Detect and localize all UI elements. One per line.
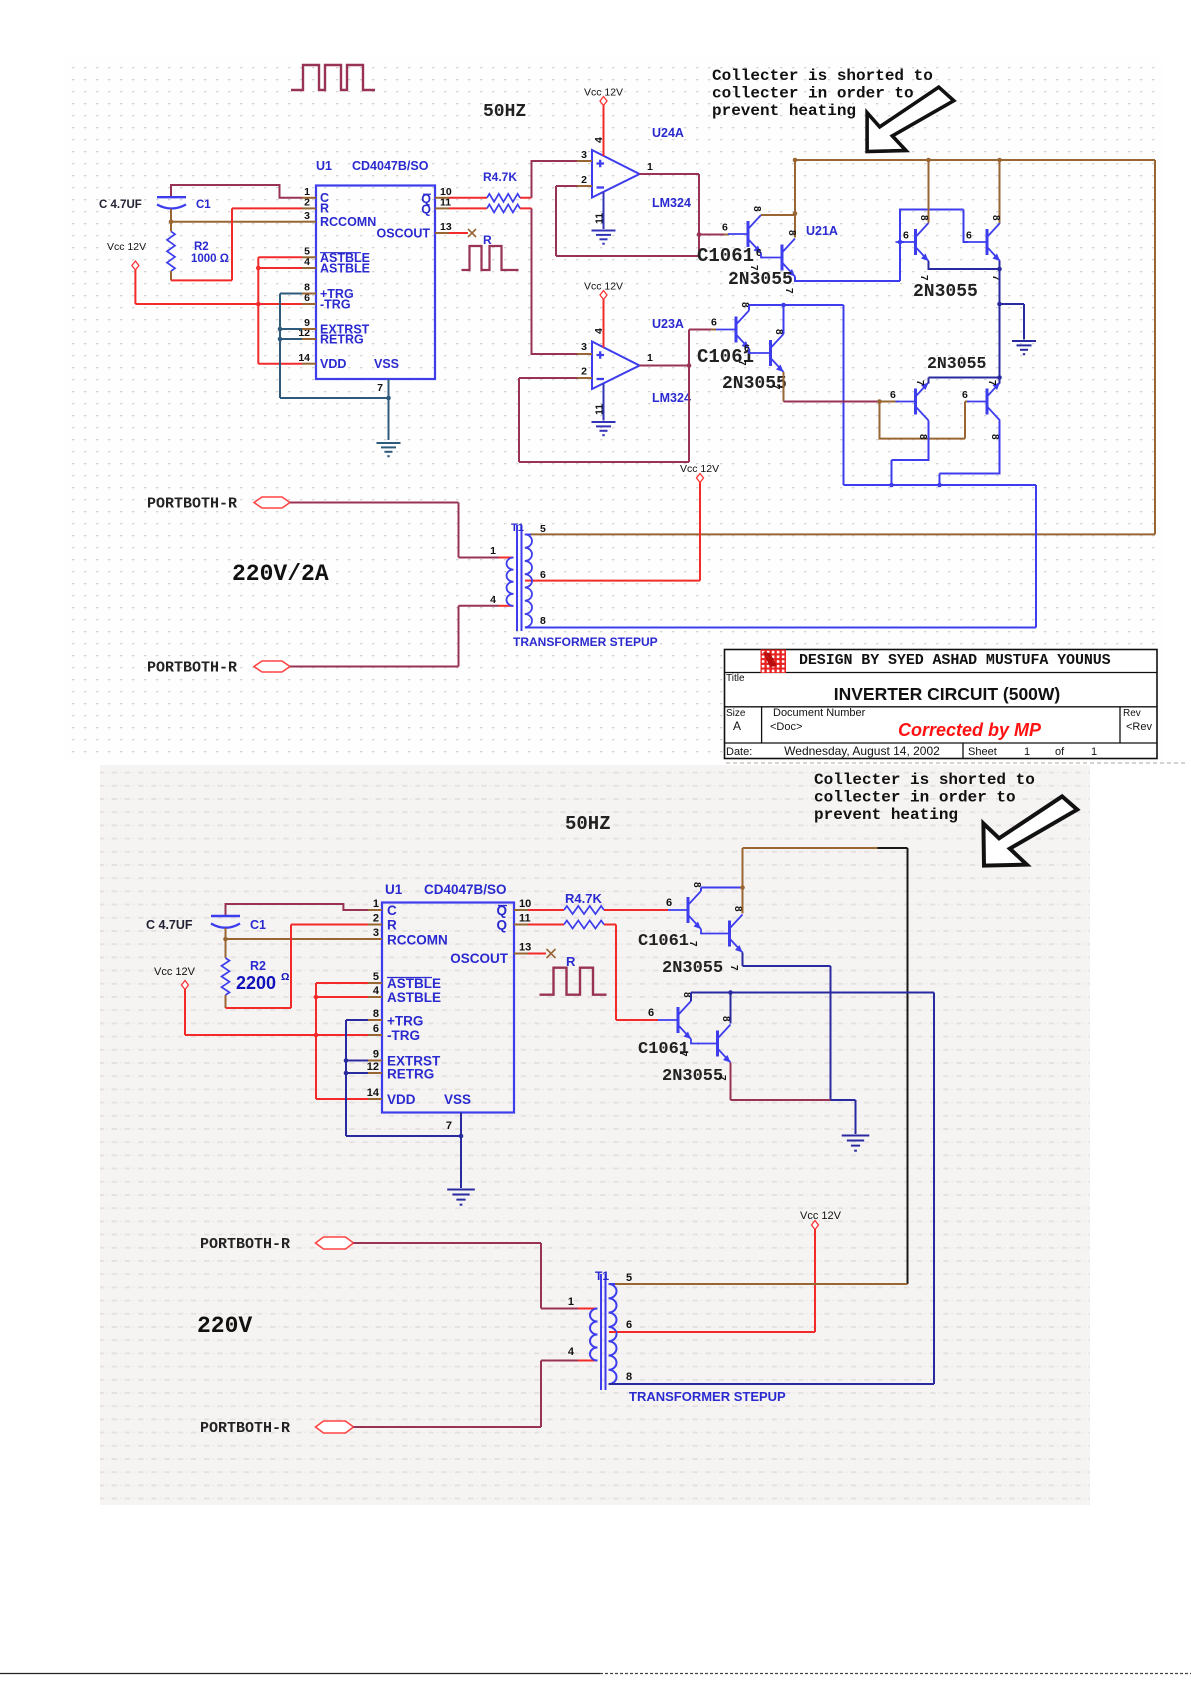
svg-text:+TRG: +TRG	[387, 1014, 423, 1029]
svg-text:PORTBOTH-R: PORTBOTH-R	[200, 1420, 290, 1437]
svg-text:1: 1	[1024, 746, 1030, 758]
svg-text:8: 8	[989, 434, 1000, 440]
svg-text:OSCOUT: OSCOUT	[450, 951, 509, 966]
svg-text:4: 4	[593, 137, 605, 143]
svg-text:5: 5	[626, 1272, 632, 1284]
svg-text:C 4.7UF: C 4.7UF	[99, 199, 142, 211]
svg-text:6: 6	[648, 1007, 654, 1019]
svg-text:2N3055: 2N3055	[662, 959, 723, 978]
svg-text:8: 8	[691, 882, 702, 888]
svg-text:PORTBOTH-R: PORTBOTH-R	[147, 496, 237, 513]
svg-text:4: 4	[490, 594, 496, 606]
svg-text:8: 8	[373, 1008, 379, 1020]
svg-text:VSS: VSS	[444, 1092, 471, 1107]
svg-text:8: 8	[773, 329, 784, 335]
svg-text:3: 3	[373, 927, 379, 939]
svg-text:8: 8	[918, 215, 929, 221]
svg-text:INVERTER CIRCUIT (500W): INVERTER CIRCUIT (500W)	[834, 684, 1061, 704]
svg-text:CD4047B/SO: CD4047B/SO	[424, 882, 507, 897]
svg-text:6: 6	[373, 1023, 379, 1035]
svg-text:U1: U1	[316, 159, 332, 173]
svg-text:Ω: Ω	[281, 971, 289, 983]
svg-text:RETRG: RETRG	[387, 1067, 434, 1082]
svg-text:4: 4	[373, 985, 380, 997]
svg-text:6: 6	[722, 222, 728, 234]
svg-text:U24A: U24A	[652, 126, 684, 140]
svg-text:7: 7	[716, 1075, 727, 1081]
svg-text:Q: Q	[421, 203, 431, 217]
svg-text:prevent heating: prevent heating	[814, 806, 958, 824]
svg-text:6: 6	[626, 1319, 632, 1331]
svg-text:3: 3	[304, 210, 310, 222]
svg-text:Sheet: Sheet	[968, 746, 997, 758]
svg-text:2N3055: 2N3055	[927, 354, 987, 373]
svg-text:2: 2	[373, 913, 379, 925]
svg-text:6: 6	[903, 230, 909, 242]
svg-text:7: 7	[728, 965, 739, 971]
svg-text:2N3055: 2N3055	[728, 270, 793, 290]
svg-text:R: R	[387, 918, 397, 933]
svg-text:8: 8	[540, 615, 546, 627]
svg-text:RCCOMN: RCCOMN	[320, 215, 376, 229]
svg-text:R2: R2	[250, 959, 266, 973]
svg-text:VDD: VDD	[320, 357, 346, 371]
svg-text:7: 7	[783, 288, 794, 294]
svg-text:Rev: Rev	[1123, 708, 1141, 719]
svg-text:1: 1	[490, 545, 496, 557]
svg-text:7: 7	[736, 360, 747, 366]
svg-text:prevent heating: prevent heating	[712, 102, 856, 120]
svg-text:13: 13	[519, 942, 531, 954]
svg-text:13: 13	[440, 221, 452, 233]
svg-text:6: 6	[890, 389, 896, 401]
svg-text:7: 7	[914, 380, 925, 386]
svg-text:2: 2	[581, 174, 587, 186]
svg-text:7: 7	[748, 265, 759, 271]
svg-text:7: 7	[446, 1120, 452, 1132]
svg-text:-TRG: -TRG	[320, 298, 351, 312]
svg-text:U21A: U21A	[806, 224, 838, 238]
svg-text:TRANSFORMER STEPUP: TRANSFORMER STEPUP	[629, 1389, 786, 1404]
svg-text:8: 8	[751, 206, 762, 212]
svg-text:RETRG: RETRG	[320, 333, 364, 347]
svg-text:<Doc>: <Doc>	[770, 721, 802, 733]
svg-text:8: 8	[917, 434, 928, 440]
svg-text:8: 8	[786, 230, 797, 236]
svg-text:7: 7	[377, 382, 383, 394]
svg-text:Document Number: Document Number	[773, 707, 866, 719]
svg-text:LM324: LM324	[652, 196, 691, 210]
svg-text:8: 8	[720, 1016, 731, 1022]
svg-text:C 4.7UF: C 4.7UF	[146, 918, 193, 932]
svg-text:VDD: VDD	[387, 1092, 416, 1107]
svg-text:1: 1	[568, 1296, 574, 1308]
svg-text:Collecter is shorted to: Collecter is shorted to	[712, 67, 933, 85]
svg-text:Vcc 12V: Vcc 12V	[107, 241, 146, 253]
svg-text:3: 3	[581, 341, 587, 353]
svg-text:6: 6	[962, 389, 968, 401]
svg-text:ASTBLE: ASTBLE	[387, 976, 441, 991]
svg-text:U23A: U23A	[652, 317, 684, 331]
svg-text:Vcc 12V: Vcc 12V	[800, 1210, 842, 1222]
svg-text:5: 5	[373, 971, 379, 983]
svg-text:U1: U1	[385, 882, 403, 897]
svg-text:7: 7	[986, 380, 997, 386]
svg-text:1: 1	[373, 898, 379, 910]
svg-text:Collecter is shorted to: Collecter is shorted to	[814, 771, 1035, 789]
svg-text:TRANSFORMER STEPUP: TRANSFORMER STEPUP	[513, 635, 658, 649]
svg-text:12: 12	[367, 1061, 379, 1073]
svg-text:RCCOMN: RCCOMN	[387, 933, 448, 948]
svg-text:T1: T1	[511, 522, 524, 534]
svg-text:6: 6	[966, 230, 972, 242]
svg-text:LM324: LM324	[652, 391, 691, 405]
svg-text:C1061: C1061	[638, 932, 689, 951]
svg-text:6: 6	[711, 317, 717, 329]
svg-text:Date:: Date:	[726, 746, 752, 758]
svg-text:ASTBLE: ASTBLE	[320, 262, 370, 276]
svg-text:7: 7	[677, 1051, 688, 1057]
svg-text:8: 8	[732, 906, 743, 912]
svg-text:OSCOUT: OSCOUT	[377, 227, 431, 241]
svg-text:1: 1	[647, 161, 653, 173]
svg-text:6: 6	[666, 897, 672, 909]
svg-text:C1061: C1061	[697, 245, 754, 267]
svg-text:2N3055: 2N3055	[662, 1067, 723, 1086]
svg-text:Wednesday, August 14, 2002: Wednesday, August 14, 2002	[784, 744, 940, 758]
svg-text:DESIGN BY SYED ASHAD MUSTUFA Y: DESIGN BY SYED ASHAD MUSTUFA YOUNUS	[799, 652, 1111, 669]
svg-text:1: 1	[647, 352, 653, 364]
svg-text:8: 8	[990, 215, 1001, 221]
svg-text:-TRG: -TRG	[387, 1028, 420, 1043]
svg-text:R: R	[320, 202, 329, 216]
svg-text:2200: 2200	[236, 973, 276, 993]
svg-text:11: 11	[519, 913, 531, 925]
svg-text:50HZ: 50HZ	[565, 813, 611, 835]
svg-text:10: 10	[519, 898, 531, 910]
svg-text:T1: T1	[595, 1269, 609, 1283]
svg-text:PORTBOTH-R: PORTBOTH-R	[200, 1236, 290, 1253]
svg-text:collecter in order to: collecter in order to	[712, 85, 914, 103]
svg-text:6: 6	[540, 569, 546, 581]
svg-text:C1: C1	[250, 918, 266, 932]
svg-text:1: 1	[1091, 746, 1097, 758]
svg-text:9: 9	[373, 1049, 379, 1061]
svg-text:Title: Title	[726, 673, 745, 684]
svg-text:CD4047B/SO: CD4047B/SO	[352, 159, 429, 173]
svg-text:7: 7	[918, 275, 929, 281]
svg-text:1000 Ω: 1000 Ω	[191, 253, 229, 265]
svg-text:5: 5	[540, 523, 546, 535]
svg-text:VSS: VSS	[374, 357, 399, 371]
svg-text:<Rev: <Rev	[1126, 721, 1152, 733]
svg-text:of: of	[1055, 746, 1065, 758]
svg-text:4: 4	[593, 328, 605, 334]
svg-text:14: 14	[298, 352, 310, 364]
svg-text:2: 2	[581, 366, 587, 378]
svg-text:220V: 220V	[197, 1313, 252, 1339]
svg-text:ASTBLE: ASTBLE	[387, 990, 441, 1005]
svg-text:A: A	[733, 719, 741, 733]
svg-text:7: 7	[687, 941, 698, 947]
svg-text:R4.7K: R4.7K	[483, 170, 517, 184]
svg-text:collecter in order to: collecter in order to	[814, 789, 1016, 807]
svg-text:Corrected by MP: Corrected by MP	[898, 720, 1042, 740]
svg-text:C: C	[387, 903, 397, 918]
svg-text:3: 3	[581, 149, 587, 161]
svg-text:R4.7K: R4.7K	[565, 891, 602, 906]
svg-text:Vcc 12V: Vcc 12V	[154, 966, 196, 978]
svg-text:14: 14	[367, 1087, 380, 1099]
svg-text:Q: Q	[496, 918, 507, 933]
svg-text:50HZ: 50HZ	[483, 102, 526, 122]
svg-text:7: 7	[770, 384, 781, 390]
svg-text:4: 4	[568, 1346, 575, 1358]
svg-text:PORTBOTH-R: PORTBOTH-R	[147, 660, 237, 677]
svg-text:R2: R2	[194, 241, 209, 253]
svg-text:C1: C1	[196, 199, 211, 211]
svg-text:8: 8	[626, 1371, 632, 1383]
svg-text:2N3055: 2N3055	[913, 282, 978, 302]
svg-text:220V/2A: 220V/2A	[232, 561, 329, 587]
svg-text:Size: Size	[726, 708, 746, 719]
